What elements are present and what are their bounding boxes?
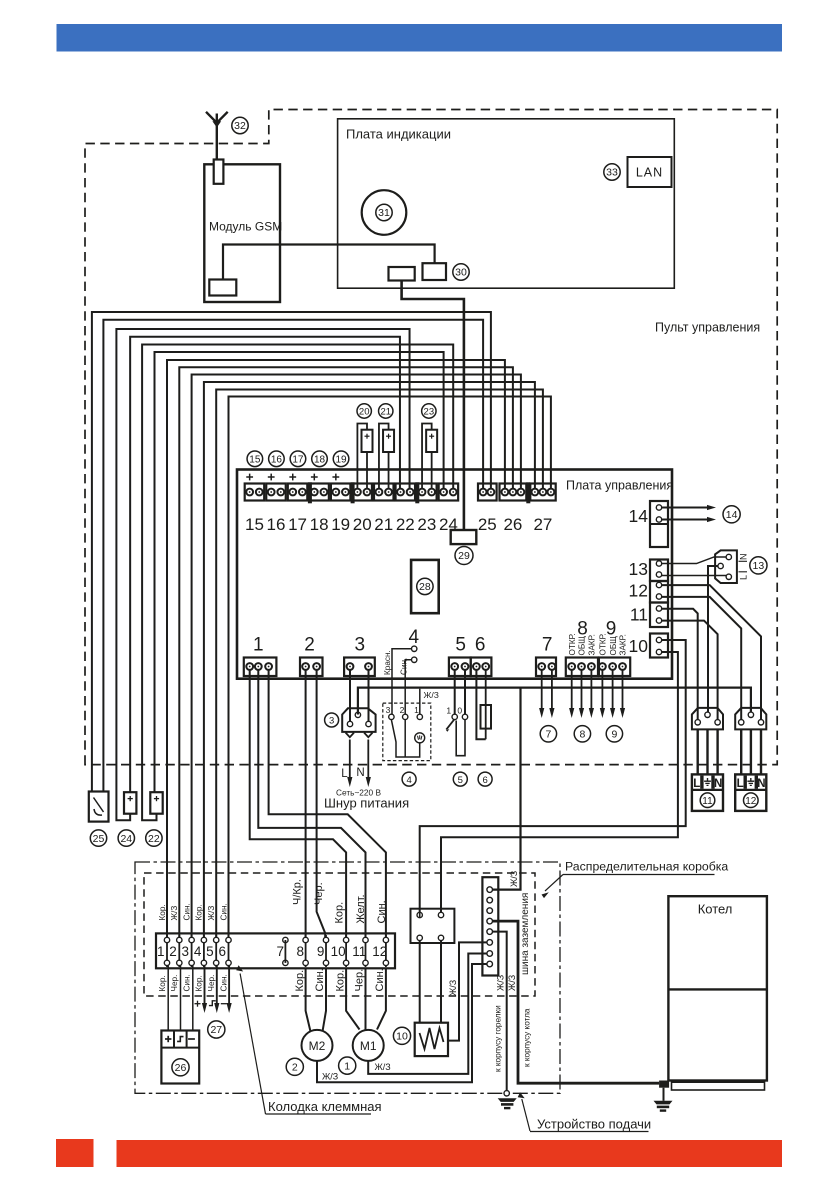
svg-text:15: 15 (249, 455, 261, 466)
polarity + mark terminal 17 (289, 476, 296, 478)
callout circle 18 (312, 451, 328, 467)
svg-text:4: 4 (409, 627, 420, 648)
callout circle 20 (357, 404, 371, 418)
svg-text:12: 12 (745, 796, 757, 807)
svg-text:31: 31 (378, 207, 390, 219)
svg-text:Желт.: Желт. (355, 894, 367, 923)
svg-text:L: L (341, 768, 348, 780)
switch SA1 pin 3 (389, 714, 394, 719)
terminal block X21 on control board (374, 484, 394, 501)
ground riser to distribution box (492, 688, 520, 890)
svg-text:5: 5 (455, 635, 466, 656)
svg-text:Плата управления: Плата управления (566, 479, 673, 493)
connector X13 box (650, 560, 668, 582)
ground bus terminal (487, 897, 493, 903)
svg-text:21: 21 (374, 515, 393, 534)
callout circle 33 (LAN) (604, 164, 620, 180)
svg-text:18: 18 (314, 455, 326, 466)
junction terminal 4 screws (201, 937, 206, 942)
svg-text:Котел: Котел (698, 902, 733, 917)
terminal block X26 (500, 484, 527, 501)
wire plug to socket (706, 729, 708, 775)
battery G2 lower lead (388, 452, 390, 489)
socket X11 (L-gnd-N) (692, 774, 723, 811)
svg-text:Ж/З: Ж/З (424, 690, 439, 700)
svg-text:0: 0 (457, 706, 462, 716)
wire plug to socket (740, 729, 742, 775)
svg-text:Модуль GSM: Модуль GSM (209, 220, 282, 234)
junction terminal 5 screws (214, 937, 219, 942)
wire junction 11 to motor M1 (365, 968, 367, 1030)
module GSM box (204, 164, 280, 302)
svg-text:к корпусу горелки: к корпусу горелки (494, 1005, 503, 1072)
charger output arrow 4 (204, 966, 206, 1005)
svg-text:27: 27 (210, 1024, 222, 1036)
dashed enclosure: Пульт управления (control panel) (85, 110, 777, 765)
wire X1 pin3 to junction 12 (269, 670, 386, 941)
burner ground terminal (504, 1091, 509, 1096)
svg-text:Ж/З: Ж/З (496, 975, 506, 991)
svg-text:Син.: Син. (314, 968, 326, 991)
output wire group 9 (622, 670, 624, 711)
lamp HL1 in switch (415, 733, 425, 743)
terminal block X18 on control board (309, 484, 329, 501)
svg-text:Шнур питания: Шнур питания (324, 796, 409, 811)
svg-text:Чер.: Чер. (313, 882, 325, 905)
svg-text:Кор.: Кор. (334, 970, 346, 992)
svg-text:11: 11 (352, 944, 366, 959)
callout circle 13 (750, 557, 767, 574)
svg-text:Чер.: Чер. (207, 975, 216, 992)
junction terminal 2 screws (177, 937, 182, 942)
callout circle 19 (333, 451, 349, 467)
terminal block assembly chain outline (Колодка клеммная) (135, 862, 560, 1093)
connector X10 box (650, 634, 668, 658)
switch SA2 blade (446, 720, 454, 730)
ground bus terminal (487, 929, 493, 935)
wire X12 pin2 to plug12 L (662, 597, 742, 722)
GSM internal connector (209, 280, 236, 296)
callout circle 16 (269, 451, 285, 467)
junction terminal 12 through-wire (385, 935, 387, 967)
svg-text:1: 1 (414, 705, 419, 715)
svg-text:Син.: Син. (182, 903, 191, 920)
battery G4 body (426, 430, 437, 452)
terminal strip separator (526, 482, 530, 503)
sensor B3 (flow switch) body (89, 792, 109, 822)
switch SA1 pin 1 (417, 714, 422, 719)
battery G1 lower lead (366, 452, 368, 489)
svg-text:Красн.: Красн. (383, 650, 392, 675)
ground wire bus to motor M1 (368, 954, 487, 1074)
svg-text:27: 27 (533, 515, 552, 534)
wire board X3 right to plug (368, 670, 370, 723)
power cord wire N (367, 740, 369, 780)
svg-text:Устройство подачи: Устройство подачи (537, 1117, 651, 1132)
svg-text:2: 2 (169, 944, 177, 959)
svg-text:Ж/З: Ж/З (170, 906, 179, 921)
output wire group 8 (581, 670, 583, 711)
igniter EK1 body (415, 1023, 448, 1056)
junction terminal 11 screws (363, 937, 368, 942)
ground symbol (boiler) (654, 1101, 673, 1105)
sensor B1 (temp sensor) body (150, 792, 162, 814)
svg-text:LAN: LAN (636, 166, 663, 180)
callout circle 22 (146, 830, 162, 846)
svg-text:2: 2 (304, 635, 315, 656)
svg-text:ОТКР.: ОТКР. (599, 633, 608, 655)
svg-text:6: 6 (475, 635, 486, 656)
wire bundle harness w10 (204, 382, 535, 940)
terminal block X2 (board bottom) (300, 658, 323, 677)
callout circle 21 (379, 404, 393, 418)
module A28 body (411, 560, 439, 613)
wire X14 pin1 arrow (662, 507, 708, 509)
charger polarity + (195, 1003, 201, 1005)
junction terminal 8 screws (303, 937, 308, 942)
switch SA1 pin 2 (403, 714, 408, 719)
svg-text:Колодка клеммная: Колодка клеммная (268, 1099, 382, 1114)
wire X13 pin2 to plug (662, 575, 726, 577)
svg-text:11: 11 (702, 796, 713, 807)
battery G2 body (383, 430, 394, 452)
wire junction 8 to motor M2 (306, 968, 311, 1031)
svg-text:Кор.: Кор. (334, 902, 346, 924)
svg-text:25: 25 (478, 515, 497, 534)
callout circle 23 (422, 404, 436, 418)
svg-text:Кор.: Кор. (294, 970, 306, 992)
ground bus terminal (487, 951, 493, 957)
pump plug XP13 body (715, 550, 737, 583)
svg-text:Син.: Син. (182, 974, 191, 991)
wire X1 pin2 to junction 11 (258, 670, 365, 941)
header blue banner bar (57, 24, 783, 52)
battery symbol - (188, 1038, 195, 1040)
svg-text:Ж/З: Ж/З (509, 871, 519, 887)
svg-text:Син.: Син. (219, 974, 228, 991)
ground wire bus to boiler body (493, 921, 660, 1083)
svg-text:7: 7 (542, 635, 553, 656)
wire GSM to indication board connector 30 (223, 245, 435, 280)
svg-text:4: 4 (194, 944, 202, 959)
output wire group 9 (601, 670, 603, 711)
callout circle 29 (455, 547, 473, 565)
svg-text:10: 10 (629, 636, 649, 656)
LAN connector box (628, 157, 672, 187)
svg-text:Пульт управления: Пульт управления (655, 321, 760, 335)
svg-text:Кор.: Кор. (195, 904, 204, 920)
ground bus terminal (487, 961, 493, 967)
svg-text:17: 17 (288, 515, 307, 534)
svg-text:Чер.: Чер. (354, 969, 366, 992)
svg-text:25: 25 (93, 833, 105, 845)
svg-text:Плата индикации: Плата индикации (346, 127, 451, 142)
svg-text:ОБЩ: ОБЩ (578, 636, 587, 656)
terminal block X19 on control board (331, 484, 351, 501)
svg-text:16: 16 (267, 515, 286, 534)
svg-text:ЗАКР.: ЗАКР. (619, 634, 628, 655)
battery GB1 box (161, 1031, 199, 1084)
terminal block X8 (board bottom) (566, 658, 598, 677)
svg-text:13: 13 (629, 559, 648, 579)
terminal block X16 on control board (266, 484, 286, 501)
junction terminal 11 through-wire (365, 935, 367, 967)
junction terminal 2 through-wire (178, 935, 180, 967)
wire X11 pin1 to plug11 L (662, 609, 698, 722)
antenna W1 mast (216, 114, 218, 162)
svg-text:26: 26 (175, 1062, 187, 1074)
svg-text:L: L (693, 778, 700, 790)
wire bundle harness w12 (229, 397, 551, 941)
wire bundle harness w7 (167, 360, 505, 940)
output wire group 7 (541, 670, 543, 711)
ground wire plug3 to bus (358, 688, 751, 715)
junction terminal 4 through-wire (203, 935, 205, 967)
svg-text:14: 14 (629, 506, 649, 526)
svg-text:Ж/З: Ж/З (322, 1072, 338, 1082)
callout circle 8 (574, 726, 590, 742)
svg-text:19: 19 (335, 455, 347, 466)
wire X1 pin1 to junction 10 (250, 670, 346, 941)
svg-text:18: 18 (310, 515, 329, 534)
output wire group 8 (571, 670, 573, 711)
svg-text:N: N (356, 767, 364, 779)
junction jumper cell 7 (284, 940, 286, 963)
wire X5 right down (464, 670, 466, 715)
leader arrow to feeder (522, 1099, 530, 1131)
junction terminal 10 through-wire (345, 935, 347, 967)
svg-text:Син.: Син. (374, 968, 386, 991)
svg-text:20: 20 (359, 407, 370, 418)
battery G4 loop wire (422, 424, 432, 490)
terminal block X23 on control board (417, 484, 437, 501)
ground wire bus to burner body (493, 932, 507, 1091)
terminal strip separator (351, 482, 355, 503)
plug XP12 body (735, 708, 766, 730)
callout circle 10 (393, 1027, 410, 1044)
wire X10 pin1 to feeder connector (420, 640, 686, 912)
wire junction 10 to motor M1 (346, 968, 359, 1029)
svg-text:4: 4 (406, 775, 411, 786)
callout circle 15 (247, 451, 263, 467)
ground bus terminal (487, 940, 493, 946)
battery G1 body (362, 430, 373, 452)
wire bundle harness w1 (92, 312, 491, 792)
boiler ground connection block (659, 1081, 669, 1088)
wire X11 pin2 to plug11 N (662, 621, 718, 722)
svg-text:12: 12 (629, 581, 648, 601)
boiler pedestal (672, 1082, 765, 1090)
svg-text:14: 14 (726, 509, 738, 521)
feeder connector pins (417, 912, 422, 917)
svg-text:9: 9 (611, 729, 617, 741)
output wire group 9 (612, 670, 614, 711)
svg-text:Ж/З: Ж/З (448, 980, 458, 996)
wire bundle harness w6 (155, 352, 444, 792)
switch SA2 loop wire (456, 720, 465, 756)
ground bus terminal (487, 908, 493, 914)
svg-text:М2: М2 (309, 1039, 326, 1053)
wire feeder connector to igniter right (440, 941, 442, 1023)
boiler box (Котел) (668, 896, 767, 1080)
svg-text:1: 1 (446, 706, 451, 716)
svg-text:к корпусу котла: к корпусу котла (523, 1008, 532, 1067)
leader arrow to terminal block (240, 974, 265, 1115)
motor M2 (302, 1030, 333, 1061)
svg-text:23: 23 (424, 407, 435, 418)
leader arrow to distribution box (545, 875, 563, 892)
ground bus bar (шина заземления) (482, 877, 498, 975)
output wire group 7 (551, 670, 553, 711)
junction terminal 6 screws (226, 937, 231, 942)
svg-text:5: 5 (206, 944, 214, 959)
svg-text:1: 1 (253, 635, 264, 656)
callout circle 5 (453, 772, 467, 786)
svg-text:Син.: Син. (400, 658, 409, 675)
polarity + mark terminal 18 (311, 476, 318, 478)
junction terminal 5 through-wire (215, 935, 217, 967)
wire bundle harness w11 (216, 390, 543, 941)
svg-text:Кор.: Кор. (158, 975, 167, 991)
wire plug to socket (716, 729, 718, 775)
junction terminal 3 screws (189, 937, 194, 942)
ground bus terminal (487, 887, 493, 893)
charger polarity - (221, 1003, 227, 1005)
charger output arrow 5 (216, 966, 218, 1005)
wire lamp to pin1 (419, 689, 421, 715)
battery symbol + (165, 1038, 171, 1040)
socket X12 (L-gnd-N) (735, 774, 766, 811)
callout circle 32 (antenna) (232, 117, 248, 133)
svg-text:23: 23 (417, 515, 436, 534)
control board box (Плата управления) (237, 470, 672, 679)
wire connector 30 to connector 29 (402, 281, 464, 531)
svg-text:Кор.: Кор. (195, 975, 204, 991)
terminal block X20 on control board (352, 484, 372, 501)
ground wire bus to igniter (448, 942, 487, 1040)
wire X2 pin2 to junction 9 (317, 670, 326, 941)
connector X11 box (650, 603, 668, 628)
terminal block X1 (board bottom) (244, 658, 277, 677)
svg-text:30: 30 (455, 267, 467, 279)
svg-text:13: 13 (753, 560, 765, 572)
callout circle 7 (540, 726, 556, 742)
connector 4 pin a (412, 646, 417, 651)
svg-text:8: 8 (296, 944, 304, 959)
svg-text:L: L (739, 575, 749, 580)
svg-text:N: N (739, 554, 749, 561)
cord break chevron N (364, 733, 372, 738)
svg-text:26: 26 (503, 515, 522, 534)
junction terminal 12 screws (383, 937, 388, 942)
wire bundle harness w4 (130, 337, 400, 792)
svg-text:ОТКР.: ОТКР. (568, 633, 577, 655)
svg-text:шина заземления: шина заземления (520, 893, 531, 975)
switch SA1 blade and wiring (391, 720, 419, 757)
svg-text:1: 1 (344, 1060, 350, 1072)
fuse FU1 wire (485, 670, 487, 740)
svg-text:20: 20 (353, 515, 372, 534)
svg-text:22: 22 (396, 515, 415, 534)
antenna W1 arms (206, 112, 228, 123)
callout circle 1 (339, 1057, 356, 1074)
junction terminal 3 through-wire (191, 935, 193, 967)
svg-text:Распределительная коробка: Распределительная коробка (565, 860, 728, 874)
wire bundle harness w5 (142, 345, 453, 821)
callout circle 25 (90, 830, 106, 846)
wire plug13 ground to plug11 middle (708, 566, 718, 715)
wire junction 2 to battery (180, 966, 182, 1031)
callout circle 30 (453, 264, 469, 280)
distribution box dashed outline (Распределительная коробка) (144, 873, 535, 996)
svg-text:32: 32 (234, 120, 246, 132)
svg-text:ОБЩ: ОБЩ (609, 636, 618, 656)
callout circle 2 (286, 1058, 303, 1075)
connector X12 box (650, 581, 668, 603)
charger polarity pulse (209, 1001, 216, 1006)
power cord wire L (349, 740, 351, 780)
callout circle 24 (118, 830, 134, 846)
svg-text:Ж/З: Ж/З (375, 1062, 391, 1072)
battery symbol pulse (177, 1037, 183, 1042)
battery G4 lower lead (431, 452, 433, 489)
callout circle 26 (172, 1059, 189, 1076)
svg-text:М1: М1 (360, 1039, 377, 1053)
svg-text:2: 2 (400, 705, 405, 715)
junction terminal 1 through-wire (166, 935, 168, 967)
svg-text:7: 7 (276, 944, 284, 959)
connector 30 lower half (389, 267, 415, 281)
svg-text:1: 1 (157, 944, 165, 959)
terminal block X24 on control board (439, 484, 459, 501)
wire bundle harness w2 (103, 320, 483, 792)
svg-text:Ж/З: Ж/З (507, 975, 517, 991)
svg-text:7: 7 (545, 729, 551, 741)
terminal strip separator (415, 482, 419, 503)
svg-text:2: 2 (292, 1062, 298, 1074)
footer red bar (117, 1140, 783, 1167)
terminal block X3 (board bottom) (344, 658, 375, 677)
svg-text:Ж/З: Ж/З (207, 906, 216, 921)
terminal block X6 (board bottom) (471, 658, 492, 677)
connector X14 box (650, 501, 668, 547)
svg-text:Чер.: Чер. (170, 975, 179, 992)
svg-text:28: 28 (419, 581, 431, 593)
wire X5 left down (454, 670, 456, 715)
wire junction 9 to motor M2 (323, 968, 327, 1031)
wire junction 1 to battery (167, 966, 169, 1031)
svg-text:8: 8 (579, 729, 585, 741)
wire plug to socket (750, 729, 752, 775)
svg-text:19: 19 (331, 515, 350, 534)
junction terminal 1 screws (164, 937, 169, 942)
svg-text:24: 24 (120, 833, 132, 845)
battery G2 loop wire (379, 424, 389, 490)
terminal block X22 on control board (396, 484, 416, 501)
ground symbol (burner) (498, 1098, 517, 1102)
wire X6 left down (476, 670, 485, 740)
svg-text:N: N (714, 778, 722, 790)
callout circle 14 (723, 506, 740, 523)
power plug XP3 body (342, 708, 375, 732)
junction terminal 9 screws (323, 937, 328, 942)
callout circle 9 (606, 726, 622, 742)
svg-text:9: 9 (317, 944, 325, 959)
wire X12 pin1 to plug12 N (662, 585, 761, 722)
callout circle 4 (402, 772, 416, 786)
connector 4 pin b (412, 657, 417, 662)
svg-text:L: L (737, 778, 744, 790)
